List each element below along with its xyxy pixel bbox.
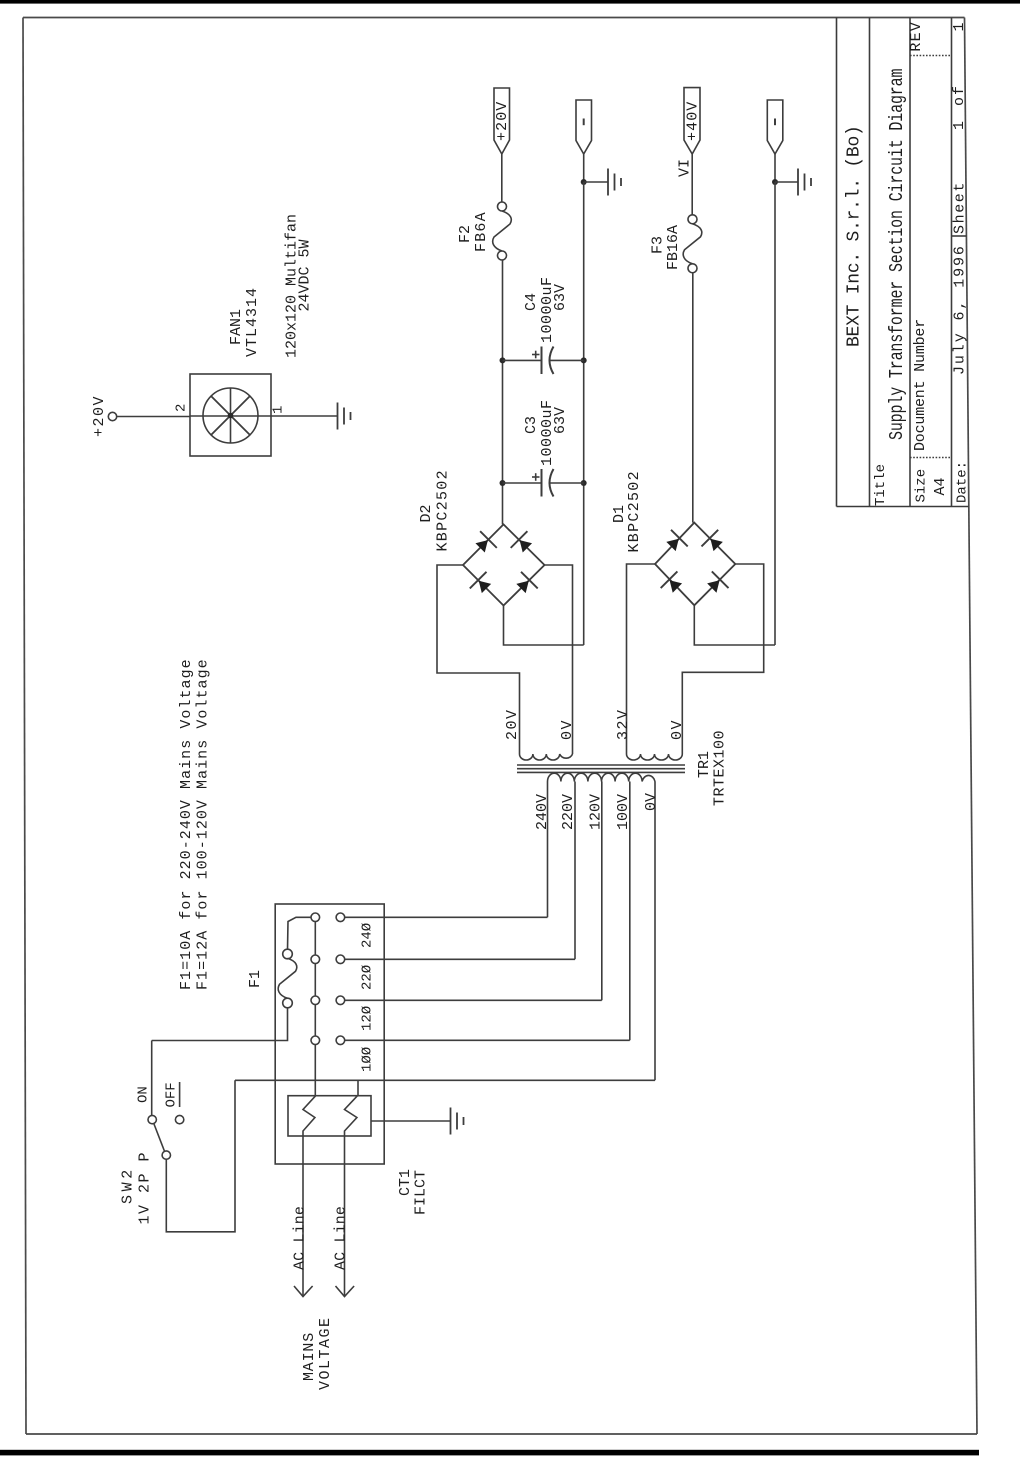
junction dot minus rail — [581, 179, 587, 185]
wire selector row 120 to transformer — [345, 999, 602, 1001]
diode D1 upper-right — [701, 530, 726, 555]
svg-text:FB16A: FB16A — [665, 225, 682, 270]
ground (minus rail D1) — [798, 169, 811, 196]
svg-text:22Ø: 22Ø — [360, 965, 376, 990]
diode D2 upper-right — [511, 531, 536, 556]
svg-text:+40V: +40V — [685, 101, 702, 141]
title block column line (company/title) — [869, 18, 871, 507]
wire switch ON contact feed — [151, 1041, 153, 1116]
junction dot minus rail 2 — [772, 179, 778, 185]
wire primary pin 120V — [601, 782, 603, 1001]
wire AC line 1 — [302, 1136, 304, 1296]
svg-text:100V: 100V — [615, 794, 632, 830]
title block outer box — [837, 18, 969, 507]
connector arrow minus (D2 side) — [576, 100, 592, 154]
wire +20V rail fuse to bridge D2 — [502, 260, 504, 524]
capacitor C3 junction dots — [500, 480, 506, 486]
diode D1 lower-left — [661, 571, 686, 596]
svg-text:A4: A4 — [932, 477, 949, 495]
Size box top line — [910, 457, 952, 459]
svg-text:F1=12A for 100-120V Mains Volt: F1=12A for 100-120V Mains Voltage — [195, 658, 212, 990]
connector arrow minus (D1 side) — [767, 100, 783, 154]
selector terminal circles column B — [336, 913, 345, 1045]
ground (fan) — [338, 403, 351, 430]
svg-text:F1: F1 — [247, 970, 264, 988]
svg-text:TR1: TR1 — [696, 751, 713, 778]
svg-text:of: of — [951, 84, 968, 106]
svg-text:July 6, 1996: July 6, 1996 — [952, 244, 969, 375]
wire +40V rail fuse to bridge D1 — [692, 273, 694, 523]
filter coil L2 zigzag — [345, 1096, 358, 1136]
svg-text:KBPC2502: KBPC2502 — [435, 469, 452, 551]
fuse F1 — [283, 949, 293, 959]
switch pole circle — [162, 1151, 170, 1159]
svg-text:F1=10A for 220-240V Mains Volt: F1=10A for 220-240V Mains Voltage — [178, 658, 195, 990]
svg-text:24Ø: 24Ø — [360, 923, 376, 948]
wire primary pin 0V — [654, 782, 656, 1081]
svg-text:Document Number: Document Number — [912, 319, 929, 451]
svg-text:2: 2 — [174, 404, 190, 412]
svg-text:Supply Transformer Section Cir: Supply Transformer Section Circuit Diagr… — [887, 69, 908, 440]
svg-text:BEXT Inc. S.r.l. (Bo): BEXT Inc. S.r.l. (Bo) — [845, 125, 865, 347]
wire switch pole routing to 0V line — [166, 1080, 235, 1232]
C4 plus sign — [532, 351, 540, 359]
wire D2 bottom corner to minus rail — [504, 606, 584, 646]
svg-text:CT1: CT1 — [397, 1169, 414, 1196]
filter CT1 box — [288, 1096, 371, 1136]
svg-text:C4: C4 — [523, 293, 540, 311]
wire filter input 2 stub — [357, 1080, 359, 1095]
switch blade — [154, 1124, 165, 1152]
svg-text:32V: 32V — [615, 708, 632, 740]
C3 plus sign — [532, 473, 540, 481]
diode D1 lower-right — [703, 571, 728, 596]
Sheet cell line — [952, 235, 967, 237]
svg-text:1: 1 — [271, 406, 287, 414]
svg-text:1ØØ: 1ØØ — [360, 1047, 376, 1072]
svg-text:+20V: +20V — [494, 101, 511, 141]
svg-text:24VDC 5W: 24VDC 5W — [297, 239, 314, 311]
TR1 secondary winding 2 (32V-0V) — [627, 754, 683, 760]
wire AC line 2 — [344, 1136, 346, 1296]
bottom scanner black bar — [0, 1450, 979, 1456]
svg-text:63V: 63V — [552, 284, 569, 311]
wire D1 right corner jog to 0V pin — [682, 564, 763, 754]
svg-text:VTL4314: VTL4314 — [244, 287, 261, 357]
wire D2 left corner jog to 20V pin — [437, 565, 520, 754]
wire filter case to ground — [371, 1120, 451, 1122]
REV cell bottom line — [910, 55, 952, 57]
title block column line (title/doc) — [909, 18, 911, 507]
capacitor C4 junction dots — [500, 357, 506, 363]
wire arrow to junction — [774, 154, 776, 182]
bridge D1 diamond — [655, 523, 735, 606]
wire junction to ground — [584, 181, 608, 183]
selector outer box — [275, 904, 384, 1164]
fuse F3 — [688, 215, 697, 224]
ground (minus rail D2) — [608, 169, 621, 196]
svg-text:20V: 20V — [504, 708, 521, 740]
wire D2 right corner to 0V pin — [545, 565, 573, 754]
TR1 primary winding — [548, 773, 656, 781]
svg-text:AC Line: AC Line — [333, 1206, 350, 1270]
ground (filter CT1) — [451, 1108, 464, 1135]
svg-text:TRTEX100: TRTEX100 — [712, 730, 729, 806]
svg-text:Sheet: Sheet — [952, 181, 969, 234]
wire arrow to fuse F2 — [501, 154, 503, 202]
wire primary pin 100V — [629, 782, 631, 1041]
minus sign inside arrow — [583, 119, 585, 126]
svg-text:FAN1: FAN1 — [228, 309, 245, 345]
svg-text:F2: F2 — [457, 225, 474, 243]
wire selector row 240 to transformer — [345, 916, 548, 918]
svg-text:1: 1 — [951, 121, 968, 130]
svg-text:63V: 63V — [552, 407, 569, 434]
wire selector row 220 to transformer — [345, 958, 575, 960]
wire 0V distribution line — [235, 1079, 655, 1081]
svg-text:FILCT: FILCT — [413, 1170, 430, 1215]
svg-text:Size: Size — [914, 469, 930, 503]
svg-text:Title: Title — [873, 464, 889, 506]
svg-text:+20V: +20V — [91, 395, 108, 437]
diode D2 lower-right — [513, 572, 538, 597]
selector terminal circles column A — [311, 913, 320, 1045]
TR1 core lines — [517, 764, 685, 766]
svg-text:MAINS: MAINS — [301, 1332, 318, 1381]
svg-text:0V: 0V — [559, 719, 576, 740]
svg-text:AC Line: AC Line — [292, 1206, 309, 1270]
svg-text:KBPC2502: KBPC2502 — [626, 470, 643, 552]
svg-text:0V: 0V — [643, 793, 660, 811]
svg-text:12Ø: 12Ø — [360, 1006, 376, 1031]
arrowhead AC line 2 — [336, 1286, 355, 1297]
top scanner black bar — [0, 0, 1020, 4]
wire primary pin 220V — [574, 782, 576, 960]
svg-text:C3: C3 — [523, 416, 540, 434]
diode D1 upper-left — [663, 530, 688, 555]
fan internal vertical line — [230, 388, 232, 443]
OFF contact stub wire — [179, 1082, 181, 1107]
svg-text:240V: 240V — [534, 794, 551, 830]
wire selector row 100 to transformer — [345, 1039, 630, 1041]
diode D2 upper-left — [472, 531, 497, 556]
diode D2 lower-left — [470, 572, 495, 597]
wire arrow to junction — [583, 154, 585, 182]
svg-text:F3: F3 — [650, 236, 667, 254]
wire terminal to fan pin 2 — [117, 416, 190, 418]
svg-text:SW2: SW2 — [120, 1166, 137, 1204]
fan internal horizontal line — [190, 415, 271, 417]
svg-text:0V: 0V — [669, 719, 686, 740]
wire minus rail 2 down to bridge D1 — [774, 182, 776, 645]
svg-text:REV: REV — [908, 21, 925, 52]
wire D1 left corner to 32V pin — [627, 564, 656, 754]
capacitor C4 — [503, 359, 542, 361]
svg-text:120V: 120V — [588, 794, 605, 830]
title block column line (doc/date) — [951, 18, 953, 507]
wire D1 bottom corner to minus rail 2 — [694, 605, 775, 645]
svg-text:OFF: OFF — [164, 1082, 180, 1107]
wire fan pin 1 to ground — [271, 415, 338, 417]
fan hub dot — [228, 413, 234, 419]
svg-text:Date:: Date: — [955, 461, 971, 503]
svg-text:1V 2P P: 1V 2P P — [137, 1151, 154, 1225]
svg-text:VI: VI — [677, 159, 694, 177]
fuse F2 — [498, 202, 507, 211]
fan FAN1 body box — [190, 374, 271, 456]
fuse F1 wire to common bar — [288, 917, 312, 950]
connector arrow +40V — [684, 88, 700, 154]
TR1 secondary winding 1 (20V-0V) — [520, 754, 573, 760]
wire primary pin 240V — [547, 782, 549, 918]
wire F1 to switch (row at 1040) — [152, 1007, 288, 1040]
switch ON contact circle — [148, 1115, 156, 1123]
wire minus rail down to bridge D2 — [583, 182, 585, 645]
filter coil L1 zigzag — [303, 1096, 316, 1136]
capacitor C3 — [503, 482, 542, 484]
selector common bar — [314, 917, 316, 1040]
wire common bar down to filter — [314, 1040, 316, 1095]
svg-text:220V: 220V — [560, 794, 577, 830]
switch OFF contact circle — [175, 1115, 183, 1123]
fan FAN1 rotor circle — [203, 388, 258, 443]
arrowhead AC line 1 — [294, 1286, 313, 1297]
fan blade diagonal 1 — [211, 396, 250, 435]
connector arrow +20V — [494, 88, 510, 154]
terminal circle +20V — [108, 412, 116, 420]
wire junction to ground — [775, 181, 798, 183]
svg-text:FB6A: FB6A — [473, 211, 490, 252]
svg-text:D2: D2 — [418, 504, 435, 522]
minus sign inside arrow — [774, 119, 776, 126]
wire arrow to fuse F3 — [691, 154, 693, 215]
fan blade diagonal 2 — [211, 396, 250, 435]
svg-text:ON: ON — [136, 1086, 152, 1103]
bridge D2 diamond — [463, 524, 545, 605]
svg-text:1: 1 — [951, 22, 968, 31]
svg-text:VOLTAGE: VOLTAGE — [317, 1316, 334, 1390]
